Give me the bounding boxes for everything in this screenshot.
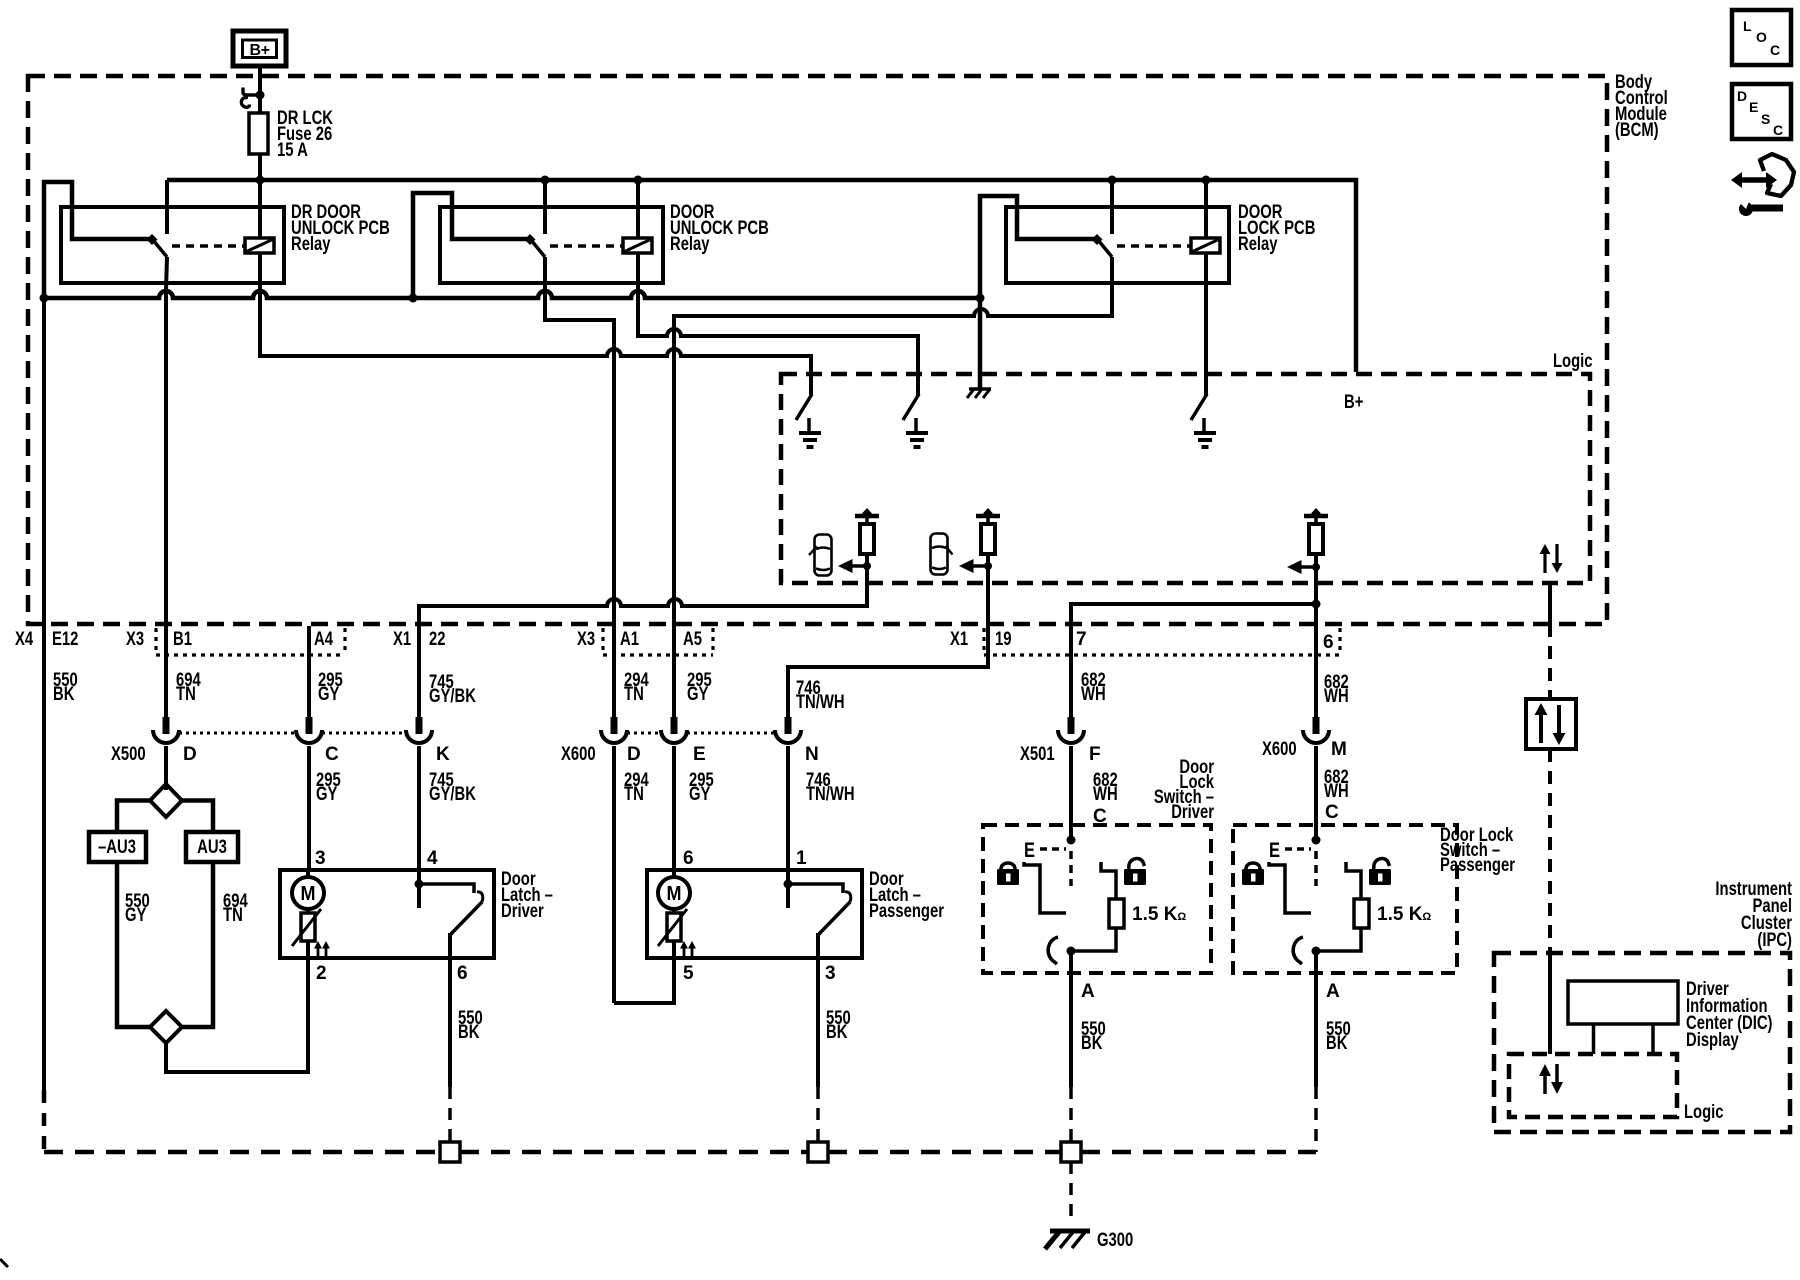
AU3 option loop left branch — [117, 801, 150, 833]
wire passenger switch pin A 550 BK — [1316, 951, 1351, 1152]
wire label 682 WH pin C driver switch — [1093, 770, 1118, 827]
relay K3 NC contact loop wire to chassis ground — [980, 196, 1095, 388]
svg-text:E12: E12 — [52, 629, 78, 650]
car icon 2 (passenger door indicator) — [931, 534, 953, 575]
X600 dotted links — [627, 732, 775, 735]
svg-text:L: L — [1743, 18, 1752, 34]
driver latch ajar switch blade — [450, 892, 483, 958]
wire label 294 TN (A1) — [624, 670, 649, 705]
wire relay K1 coil to logic switch 1 (with hops) — [260, 253, 811, 395]
DESC icon box — [1732, 84, 1791, 139]
wire B+ to fuse — [258, 66, 262, 113]
svg-text:3: 3 — [315, 848, 326, 869]
wire label 295 GY (A4) — [318, 670, 343, 705]
ground for logic switch 2 — [906, 418, 928, 447]
svg-text:4: 4 — [427, 848, 438, 869]
wire lamp 2 to connector 19 then X600 N — [788, 566, 988, 717]
driver latch pin labels — [315, 848, 468, 984]
lock padlock icon (driver) — [997, 863, 1019, 885]
svg-text:2: 2 — [316, 963, 327, 984]
passenger switch lock contact wire — [1269, 862, 1311, 913]
svg-text:X500: X500 — [111, 744, 146, 765]
inline connector X600 pin D — [601, 717, 627, 1003]
svg-text:GY: GY — [687, 684, 709, 705]
X501 labels — [1020, 744, 1101, 765]
passenger latch pin labels — [683, 848, 836, 984]
splice diamond bottom — [150, 1011, 182, 1043]
relay K3 DOOR LOCK PCB Relay box — [1006, 202, 1315, 283]
relay K1 DR DOOR UNLOCK PCB Relay box — [61, 202, 390, 283]
passenger switch unlock contact wire and resistor 1.5K — [1316, 862, 1431, 951]
inline connector X500 pin D — [153, 717, 179, 790]
svg-text:C: C — [325, 744, 339, 765]
wire relay K3 coil down to logic switch 3 — [1204, 253, 1208, 395]
wire passenger latch motor pin 5 jog to X600 D — [614, 941, 674, 1003]
thermal protector driver latch — [292, 909, 321, 946]
svg-text:Driver: Driver — [501, 901, 544, 922]
arrow lamp 3 — [1287, 560, 1320, 574]
relay K1 switch blade — [153, 240, 167, 257]
relay K1 coil — [245, 238, 274, 253]
svg-text:Relay: Relay — [1238, 234, 1278, 255]
top B+ bus — [167, 180, 1356, 372]
connector X4 pin E12 label — [15, 629, 78, 650]
serial data dashed wire to data link box — [1548, 624, 1552, 699]
inline connector X500 pin C — [296, 717, 322, 870]
thermal protector passenger latch — [658, 909, 687, 946]
wire relay K2 coil to logic switch 2 (hop at x674) — [638, 253, 918, 395]
svg-text:M: M — [667, 883, 682, 905]
DIC display box — [1568, 981, 1678, 1054]
ground bus of relay contacts (with hops) — [44, 291, 980, 298]
relay K2 DOOR UNLOCK PCB Relay box — [440, 202, 769, 283]
svg-text:Display: Display — [1686, 1030, 1739, 1051]
svg-text:X1: X1 — [950, 629, 968, 650]
svg-text:TN: TN — [624, 684, 644, 705]
inline connector X501 pin F — [1058, 717, 1084, 840]
relay K3 fixed contact from bus — [1108, 176, 1117, 235]
svg-text:E: E — [693, 744, 706, 765]
svg-text:B+: B+ — [1344, 392, 1363, 413]
svg-text:A: A — [1081, 981, 1095, 1002]
logic switch 2 (unlock all) — [903, 374, 919, 420]
svg-text:X600: X600 — [561, 744, 596, 765]
svg-text:K: K — [436, 744, 450, 765]
car icon 1 (driver door indicator) — [809, 535, 832, 576]
svg-text:X3: X3 — [126, 629, 144, 650]
passenger switch blade pivot — [1293, 937, 1320, 964]
svg-text:BK: BK — [53, 684, 75, 705]
svg-text:C: C — [1325, 802, 1339, 823]
relay K2 NC contact loop wire — [413, 193, 528, 296]
relay K3 contact point — [1092, 234, 1103, 245]
battery B+ terminal box — [233, 31, 286, 66]
svg-text:D: D — [183, 744, 197, 765]
svg-text:GY: GY — [318, 684, 340, 705]
lock padlock icon (passenger) — [1242, 863, 1264, 885]
svg-text:TN/WH: TN/WH — [796, 692, 845, 713]
svg-text:GY/BK: GY/BK — [429, 686, 476, 707]
X600 labels — [561, 744, 819, 765]
svg-text:N: N — [805, 744, 819, 765]
svg-text:B+: B+ — [250, 42, 270, 59]
driver latch ajar switch contact from pin 4 — [415, 870, 475, 908]
svg-text:Passenger: Passenger — [1440, 855, 1515, 876]
svg-text:6: 6 — [683, 848, 694, 869]
X500 labels — [111, 744, 450, 765]
junction dot bus / relay K2 loop — [409, 294, 418, 303]
svg-text:15 A: 15 A — [277, 140, 308, 161]
wire label 295 GY (A5) — [687, 670, 712, 705]
relay K1 NC contact loop wire — [44, 182, 150, 296]
connector X3 passenger dotted box — [603, 628, 713, 655]
X600 M labels — [1262, 739, 1347, 760]
driver switch lock contact wire — [1024, 862, 1066, 913]
ground for logic switch 1 — [799, 418, 821, 447]
passenger latch ajar switch contact from pin 1 — [784, 870, 844, 908]
svg-text:S: S — [1761, 111, 1770, 127]
wire passenger latch pin 3 550 BK — [818, 958, 851, 1142]
double arrows driver latch — [314, 941, 330, 956]
svg-text:WH: WH — [1093, 784, 1118, 805]
junction dot bus left / E12 wire — [40, 294, 49, 303]
wire label 682 WH (6) — [1324, 672, 1349, 707]
option box -AU3 — [89, 832, 146, 862]
svg-text:6: 6 — [1323, 632, 1334, 653]
wire A4 295 GY to X500 C — [307, 626, 311, 717]
svg-text:–AU3: –AU3 — [98, 837, 136, 858]
inline connector X600 pin N — [775, 717, 801, 870]
splice block square G300 tap — [1061, 1142, 1081, 1162]
svg-text:A1: A1 — [620, 629, 639, 650]
svg-text:19: 19 — [995, 629, 1012, 650]
wire label 682 WH (7) — [1081, 670, 1106, 705]
svg-text:GY: GY — [125, 905, 147, 926]
motor M driver latch — [292, 870, 324, 909]
svg-text:Passenger: Passenger — [869, 901, 944, 922]
IPC logic label — [1684, 1102, 1724, 1123]
serial data wire inside IPC — [1548, 950, 1552, 1054]
wire E12 550 BK left vertical — [42, 298, 46, 1152]
wire driver latch motor to pin 2 — [306, 941, 310, 958]
ground distribution dashed bus — [44, 1150, 1316, 1155]
relay K2 switch blade — [531, 240, 545, 257]
svg-text:O: O — [1756, 29, 1767, 45]
svg-text:B1: B1 — [173, 629, 192, 650]
svg-text:X4: X4 — [15, 629, 33, 650]
logic switch 3 (lock) — [1191, 374, 1207, 420]
connector X1 BCM dotted box — [984, 628, 1340, 655]
wire label 550 GY — [125, 891, 150, 926]
svg-text:TN/WH: TN/WH — [806, 784, 855, 805]
svg-text:WH: WH — [1324, 781, 1349, 802]
driver switch unlock contact wire and resistor 1.5K — [1071, 862, 1186, 951]
relay K3 actuator dashed link — [1117, 244, 1191, 248]
serial data arrows at logic box edge — [1540, 544, 1563, 573]
connector X1 pin 22 label — [393, 629, 446, 650]
splice block square (driver latch ground) — [440, 1142, 460, 1162]
svg-text:X501: X501 — [1020, 744, 1055, 765]
wire label 745 GY/BK below K — [429, 770, 476, 805]
svg-text:E: E — [1749, 99, 1758, 115]
driver switch blade pivot — [1048, 937, 1075, 964]
svg-text:BK: BK — [1326, 1033, 1348, 1054]
svg-text:Relay: Relay — [670, 234, 710, 255]
option box AU3 — [186, 832, 238, 862]
lamp symbol 1 (driver lock indicator) — [855, 508, 879, 566]
svg-text:GY/BK: GY/BK — [429, 784, 476, 805]
connector X1 BCM pins label — [950, 629, 1334, 653]
wire label 295 GY below X600 E — [689, 770, 714, 805]
wire lamp 3 down to connector 6 — [1314, 567, 1318, 717]
corner mark bottom left — [0, 1259, 8, 1267]
arrow lamp 1 to car 1 — [838, 559, 871, 573]
svg-text:BK: BK — [1081, 1033, 1103, 1054]
wire lamp 1 to connector 22 (hops over A5,A1) — [419, 566, 867, 717]
svg-text:D: D — [1737, 88, 1747, 104]
relay K2 actuator dashed link — [550, 244, 623, 248]
relay K1 actuator dashed link — [172, 244, 245, 248]
junction dot relay K3 ground wire / unlock bus — [976, 294, 985, 303]
relay K3 switch blade — [1098, 240, 1112, 257]
svg-text:TN: TN — [624, 784, 644, 805]
IPC dashed box — [1494, 953, 1790, 1132]
svg-text:D: D — [627, 744, 641, 765]
wire driver switch pin A 550 BK — [1071, 951, 1106, 1142]
wire label 294 TN below X600 D — [624, 770, 649, 805]
svg-text:WH: WH — [1324, 686, 1349, 707]
unlock padlock icon (driver) — [1124, 858, 1146, 885]
wire relay K1 blade down to connector B1 — [166, 257, 167, 717]
svg-text:C: C — [1770, 42, 1780, 58]
serial data dashed wire to IPC — [1548, 749, 1552, 950]
svg-text:BK: BK — [458, 1022, 480, 1043]
Logic label (BCM) — [1553, 351, 1593, 372]
ground G300 — [1045, 1230, 1133, 1251]
svg-text:M: M — [1331, 739, 1347, 760]
relay K3 coil — [1191, 238, 1220, 253]
svg-text:X1: X1 — [393, 629, 411, 650]
svg-text:(BCM): (BCM) — [1615, 120, 1659, 141]
wire label 550 BK (E12) — [53, 670, 78, 705]
wire relay K3 coil to bus — [1202, 176, 1211, 239]
AU3 option loop right branch — [182, 801, 213, 833]
fuse DR LCK Fuse 26 15A — [249, 108, 333, 180]
wire label 682 WH pin C passenger switch — [1324, 767, 1349, 823]
DIC label — [1686, 979, 1773, 1051]
svg-text:7: 7 — [1076, 629, 1087, 650]
Door Lock Switch Passenger dashed box — [1233, 825, 1515, 973]
svg-text:Driver: Driver — [1171, 802, 1214, 823]
wire relay K1 coil to bus — [258, 180, 262, 238]
AU3 loop left lower wire — [117, 862, 150, 1027]
svg-text:WH: WH — [1081, 684, 1106, 705]
node B+ label at logic box — [1344, 392, 1363, 413]
Door Latch Driver box — [280, 869, 553, 958]
wire label 746 TN/WH below X600 N — [806, 770, 855, 805]
AU3 loop right lower wire — [183, 862, 213, 1027]
svg-text:GY: GY — [689, 784, 711, 805]
Instrument Panel Cluster label — [1715, 879, 1792, 951]
svg-text:TN: TN — [223, 905, 243, 926]
connector X3 driver dotted box — [156, 628, 345, 655]
svg-text:Relay: Relay — [291, 234, 331, 255]
IPC logic dashed box — [1509, 1054, 1677, 1117]
wire branch to connector 7 — [1071, 604, 1316, 717]
ground for logic switch 3 — [1194, 418, 1216, 447]
svg-text:1: 1 — [796, 848, 807, 869]
wire label 694 TN (AU3) — [223, 891, 248, 926]
serial data link box with arrows — [1526, 699, 1576, 749]
relay K2 contact point — [525, 234, 536, 245]
wire label 295 GY below C — [316, 770, 341, 805]
Door Latch Passenger box — [647, 869, 944, 958]
svg-text:Logic: Logic — [1553, 351, 1593, 372]
svg-text:5: 5 — [683, 963, 694, 984]
wire label 746 TN/WH (19) — [796, 678, 845, 713]
serial data wire from logic box to BCM edge — [1548, 583, 1552, 624]
relay K1 contact point — [147, 234, 158, 245]
svg-text:C: C — [1773, 122, 1783, 138]
LOC icon box — [1732, 10, 1791, 65]
svg-text:F: F — [1089, 744, 1101, 765]
svg-text:AU3: AU3 — [197, 837, 227, 858]
wire label 745 GY/BK (22) — [429, 672, 476, 707]
motor M passenger latch — [658, 870, 690, 909]
wire relay K2 blade to connector A1 — [545, 257, 614, 717]
BCM label — [1615, 72, 1668, 141]
svg-text:(IPC): (IPC) — [1757, 930, 1792, 951]
fuse holder clip — [241, 88, 264, 108]
serial data arrows in IPC logic — [1539, 1064, 1563, 1094]
chassis ground for relay K3 contact — [967, 389, 991, 398]
splice block square (passenger latch ground) — [808, 1142, 828, 1162]
svg-text:BK: BK — [826, 1022, 848, 1043]
svg-text:X3: X3 — [577, 629, 595, 650]
X500 dotted links — [179, 732, 406, 735]
lamp symbol 2 (passenger lock indicator) — [976, 508, 1000, 566]
wire splice to driver latch pin 2 — [166, 958, 308, 1072]
relay K2 coil — [623, 238, 652, 253]
svg-text:G300: G300 — [1097, 1230, 1133, 1251]
double arrows passenger latch — [680, 941, 696, 956]
svg-text:22: 22 — [429, 629, 446, 650]
passenger latch ajar switch blade — [818, 892, 851, 958]
inline connector X500 pin K — [406, 717, 432, 870]
svg-text:E: E — [1024, 839, 1035, 862]
wire label 694 TN (B1) — [176, 670, 201, 705]
svg-text:3: 3 — [825, 963, 836, 984]
Door Lock Switch Driver dashed box — [983, 757, 1214, 973]
connector X3 driver pins label — [126, 629, 333, 650]
communication icon (double arrow, outline, wrench) — [1731, 154, 1794, 216]
inline connector X600 pin E — [661, 717, 687, 870]
logic switch 1 (unlock driver) — [796, 374, 812, 420]
arrow lamp 2 to car 2 — [959, 559, 992, 573]
lamp symbol 3 (lock indicator) — [1304, 508, 1328, 567]
connector X3 passenger pins label — [577, 629, 702, 650]
driver switch node E dashed — [1024, 836, 1076, 887]
relay K1 fixed contact from B+ bus — [165, 180, 169, 234]
BCM logic dashed box — [781, 374, 1590, 583]
wire driver latch pin 6 550 BK — [450, 958, 483, 1142]
svg-text:6: 6 — [457, 963, 468, 984]
relay K2 fixed contact from bus — [541, 176, 550, 235]
passenger switch node E dashed — [1269, 836, 1321, 887]
junction dot fuse/bus — [256, 176, 265, 185]
unlock padlock icon (passenger) — [1369, 858, 1391, 885]
inline connector X600 pin M — [1303, 717, 1329, 840]
svg-text:TN: TN — [176, 684, 196, 705]
wire relay K2 coil to bus — [634, 176, 643, 239]
svg-text:GY: GY — [316, 784, 338, 805]
dashed drop to G300 — [1069, 1162, 1073, 1218]
svg-text:A: A — [1326, 981, 1340, 1002]
svg-text:A4: A4 — [314, 629, 333, 650]
splice diamond top (694 TN) — [150, 784, 182, 817]
svg-text:X600: X600 — [1262, 739, 1297, 760]
svg-text:Logic: Logic — [1684, 1102, 1724, 1123]
svg-text:M: M — [301, 883, 316, 905]
svg-text:E: E — [1269, 839, 1280, 862]
wire relay K3 blade to connector A5 (hop over x980) — [674, 257, 1112, 717]
svg-text:A5: A5 — [683, 629, 702, 650]
BCM box (Body Control Module dashed outline) — [28, 76, 1607, 624]
junction dot lamp3 / pin7 branch — [1312, 600, 1321, 609]
